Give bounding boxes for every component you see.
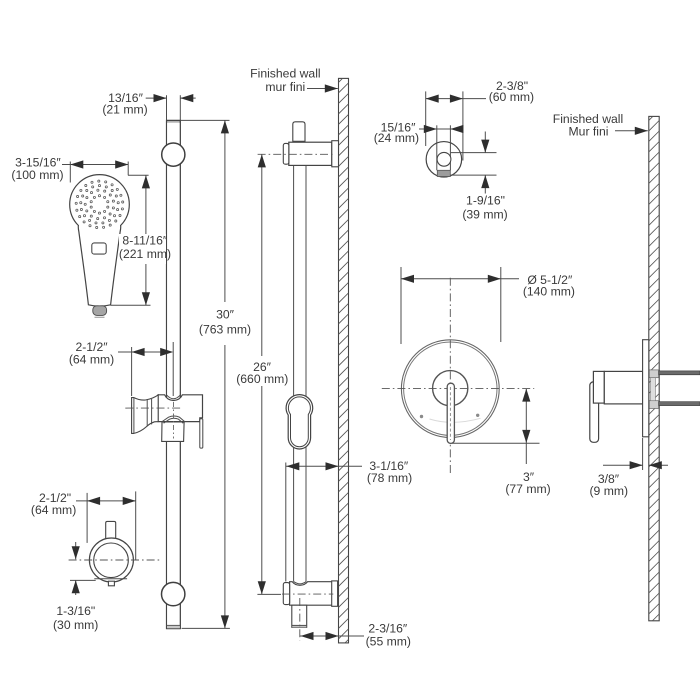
- svg-text:(140 mm): (140 mm): [523, 284, 575, 298]
- svg-text:1-3/16": 1-3/16": [56, 604, 95, 618]
- svg-text:(763 mm): (763 mm): [199, 322, 251, 336]
- svg-text:(100 mm): (100 mm): [11, 168, 63, 182]
- svg-text:(55 mm): (55 mm): [366, 635, 411, 649]
- svg-text:(221 mm): (221 mm): [119, 247, 171, 261]
- svg-text:(660 mm): (660 mm): [236, 372, 288, 386]
- svg-text:Mur fini: Mur fini: [569, 125, 609, 139]
- svg-text:(64 mm): (64 mm): [31, 503, 76, 517]
- svg-text:8-11/16″: 8-11/16″: [122, 234, 167, 248]
- svg-text:(21 mm): (21 mm): [102, 103, 147, 117]
- svg-text:(77 mm): (77 mm): [505, 482, 550, 496]
- svg-text:(60 mm): (60 mm): [489, 90, 534, 104]
- svg-text:30″: 30″: [216, 308, 235, 322]
- svg-text:(64 mm): (64 mm): [69, 352, 114, 366]
- svg-text:(24 mm): (24 mm): [374, 131, 419, 145]
- svg-text:(9 mm): (9 mm): [590, 484, 629, 498]
- svg-text:1-9/16": 1-9/16": [466, 193, 505, 207]
- svg-text:(39 mm): (39 mm): [462, 208, 507, 222]
- svg-text:mur fini: mur fini: [265, 80, 305, 94]
- svg-text:(78 mm): (78 mm): [367, 471, 412, 485]
- svg-text:2-3/16″: 2-3/16″: [368, 622, 408, 636]
- svg-text:Finished wall: Finished wall: [250, 67, 320, 81]
- svg-text:(30 mm): (30 mm): [53, 618, 98, 632]
